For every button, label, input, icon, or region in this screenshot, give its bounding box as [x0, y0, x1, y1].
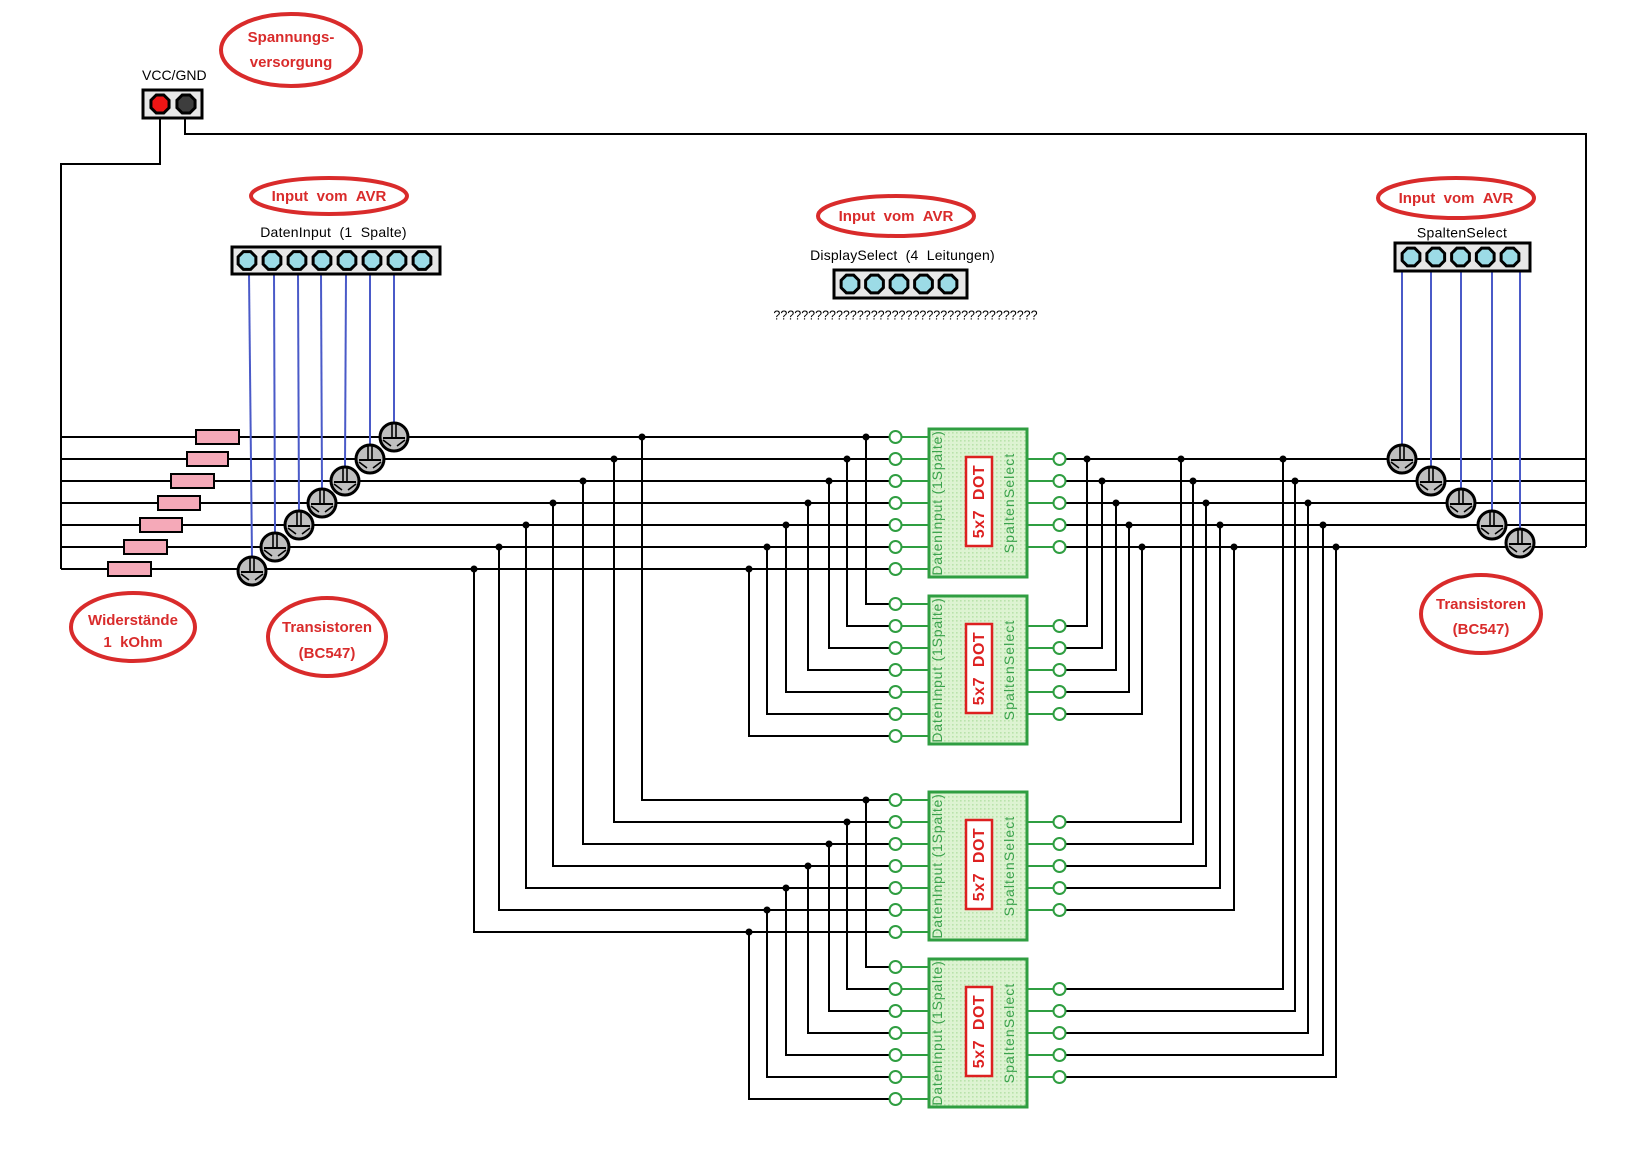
svg-text:SpaltenSelect: SpaltenSelect [1001, 453, 1017, 554]
svg-text:SpaltenSelect: SpaltenSelect [1001, 983, 1017, 1084]
svg-text:(BC547): (BC547) [1453, 621, 1510, 638]
svg-text:5x7 DOT: 5x7 DOT [971, 828, 988, 901]
svg-text:1 kOhm: 1 kOhm [103, 634, 162, 651]
svg-text:DatenInput (1Spalte): DatenInput (1Spalte) [929, 597, 945, 742]
svg-text:Spannungs-: Spannungs- [248, 29, 335, 46]
svg-text:SpaltenSelect: SpaltenSelect [1001, 620, 1017, 721]
svg-text:5x7 DOT: 5x7 DOT [971, 632, 988, 705]
svg-text:5x7 DOT: 5x7 DOT [971, 465, 988, 538]
svg-text:Input vom AVR: Input vom AVR [272, 188, 387, 205]
svg-text:DisplaySelect (4 Leitungen): DisplaySelect (4 Leitungen) [810, 247, 995, 263]
svg-text:Input vom AVR: Input vom AVR [839, 208, 954, 225]
svg-text:DatenInput (1Spalte): DatenInput (1Spalte) [929, 430, 945, 575]
svg-text:Widerstände: Widerstände [88, 612, 178, 629]
svg-text:versorgung: versorgung [250, 54, 333, 71]
svg-text:DatenInput (1Spalte): DatenInput (1Spalte) [929, 960, 945, 1105]
svg-text:DatenInput (1Spalte): DatenInput (1Spalte) [929, 793, 945, 938]
svg-text:VCC/GND: VCC/GND [142, 67, 207, 83]
svg-text:(BC547): (BC547) [299, 645, 356, 662]
svg-text:Transistoren: Transistoren [1436, 596, 1526, 613]
svg-text:Transistoren: Transistoren [282, 619, 372, 636]
svg-text:??????????????????????????????: ?????????????????????????????????????? [773, 309, 1037, 323]
svg-text:SpaltenSelect: SpaltenSelect [1001, 816, 1017, 917]
svg-text:Input vom AVR: Input vom AVR [1399, 190, 1514, 207]
svg-text:SpaltenSelect: SpaltenSelect [1417, 225, 1507, 241]
svg-text:5x7 DOT: 5x7 DOT [971, 995, 988, 1068]
svg-text:DatenInput (1 Spalte): DatenInput (1 Spalte) [260, 224, 407, 240]
